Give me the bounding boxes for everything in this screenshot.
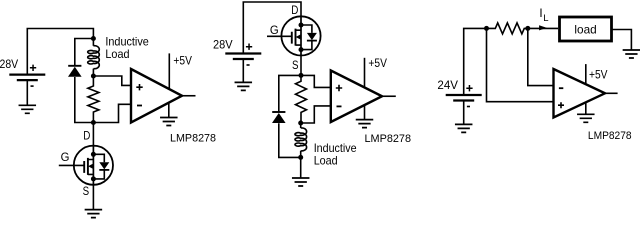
svg-text:S: S [83, 184, 90, 198]
svg-text:LMP8278: LMP8278 [588, 130, 632, 142]
svg-text:+5V: +5V [173, 55, 192, 68]
svg-text:Load: Load [314, 155, 338, 168]
svg-text:D: D [291, 3, 298, 17]
svg-text:I: I [539, 7, 542, 20]
svg-text:L: L [543, 13, 548, 24]
svg-text:G: G [61, 150, 70, 164]
svg-text:D: D [83, 129, 90, 143]
svg-text:LMP8278: LMP8278 [365, 133, 412, 145]
svg-text:24V: 24V [437, 79, 458, 92]
svg-text:load: load [574, 23, 596, 36]
svg-text:LMP8278: LMP8278 [170, 132, 216, 144]
svg-text:28V: 28V [0, 58, 18, 71]
svg-text:28V: 28V [213, 39, 233, 52]
svg-text:+5V: +5V [589, 68, 608, 81]
svg-text:Inductive: Inductive [105, 36, 148, 49]
svg-text:+5V: +5V [368, 57, 387, 70]
svg-text:Load: Load [105, 48, 129, 61]
svg-text:S: S [292, 58, 299, 72]
svg-text:G: G [270, 23, 279, 37]
svg-text:Inductive: Inductive [314, 142, 357, 155]
